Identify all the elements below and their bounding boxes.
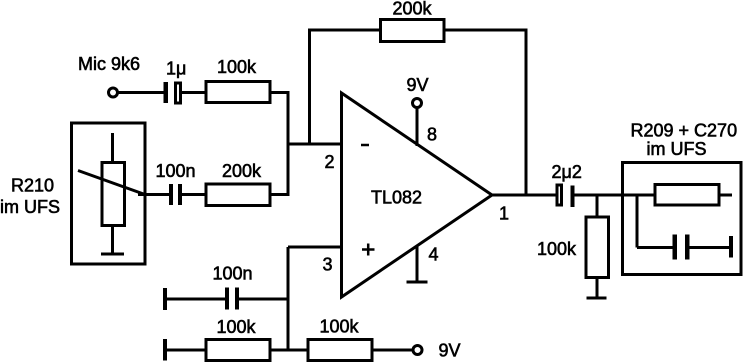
potentiometer R210 top lead [111,133,114,163]
wire C270 right lead [690,246,732,249]
svg-text:4: 4 [429,245,439,265]
wire to R4 [165,349,206,352]
wire R1 to node A [270,91,290,94]
wire R209 right lead [719,194,732,197]
svg-text:R210: R210 [11,176,54,196]
wire C4 to box [575,194,656,197]
resistor 100k bottom-left [206,340,270,361]
resistor 200k feedback [381,20,445,42]
wire to C270 [637,246,673,249]
terminal bar bottom left [163,339,167,361]
terminal bar C270 right [729,236,733,258]
wire pin 4 [416,245,419,282]
wire C3 to node B [239,298,290,301]
node B vertical (non-inverting bus) [287,247,290,350]
svg-text:200k: 200k [393,0,433,19]
node A vertical (inverting input bus) [287,93,290,195]
svg-text:2μ2: 2μ2 [552,162,582,182]
wire feedback right vertical [525,29,528,196]
svg-text:im UFS: im UFS [647,139,707,159]
op-amp plus sign [362,244,375,256]
wire feedback top left [308,29,381,32]
svg-text:100k: 100k [217,317,257,337]
wire to C3 [165,298,225,301]
wire R3 to ground [596,278,599,299]
wire C1 to R1 [182,91,206,94]
wire mic to C1 [118,91,164,94]
resistor 100k output [586,217,609,278]
resistor R209 [655,185,719,206]
svg-text:100n: 100n [213,264,253,284]
op-amp U1 TL082 [342,93,493,297]
capacitor C270 [673,235,690,260]
svg-text:3: 3 [323,255,333,275]
svg-text:9V: 9V [407,75,429,95]
wire R5 to 9V terminal [372,349,413,352]
svg-text:200k: 200k [222,161,262,181]
capacitor 100n bottom [225,288,239,310]
wire R2 to node A [270,193,290,196]
svg-text:im UFS: im UFS [0,197,60,217]
terminal mic input [109,88,118,97]
terminal bar 100n bottom [163,288,167,310]
resistor 200k [206,184,270,206]
svg-text:R209 + C270: R209 + C270 [631,121,738,141]
potentiometer R210 bottom bar [101,253,124,256]
resistor 100k mic [206,82,270,103]
wire pin 8 supply [416,108,419,147]
svg-text:2: 2 [325,152,335,172]
node C vertical to R3 [596,195,599,217]
wire wiper to C2 [138,193,169,196]
svg-text:100k: 100k [537,239,577,259]
op-amp minus sign [361,144,369,147]
svg-text:100n: 100n [156,161,196,181]
svg-text:100k: 100k [320,317,360,337]
box R209 C270 im UFS [623,163,742,275]
terminal 9V bottom [413,346,422,355]
svg-text:TL082: TL082 [371,188,422,208]
svg-text:100k: 100k [217,57,257,77]
wire node A to pin 2 [288,143,343,146]
terminal 9V top [413,99,422,108]
svg-text:9V: 9V [439,341,461,361]
wire branch down to C270 [636,195,639,248]
svg-text:1μ: 1μ [166,59,186,79]
box R210 im UFS [72,123,146,264]
capacitor 100n [169,184,182,205]
ground R3 [587,297,607,300]
wire output pin 1 [492,194,556,197]
capacitor 2u2 [557,185,575,207]
capacitor 1u [164,82,181,103]
potentiometer R210 body [102,163,125,226]
svg-text:1: 1 [499,204,509,224]
wire feedback left vertical [308,29,311,145]
svg-text:8: 8 [427,125,437,145]
wire pin 3 [288,246,343,249]
svg-text:Mic 9k6: Mic 9k6 [78,54,140,74]
wire C2 to R2 [182,193,206,196]
potentiometer R210 wiper [78,171,145,195]
wire feedback top right [444,29,528,32]
ground pin 4 [407,281,428,284]
resistor 100k bottom-right [308,340,372,361]
wire R4 to node B [270,349,308,352]
potentiometer R210 bottom lead [111,226,114,255]
